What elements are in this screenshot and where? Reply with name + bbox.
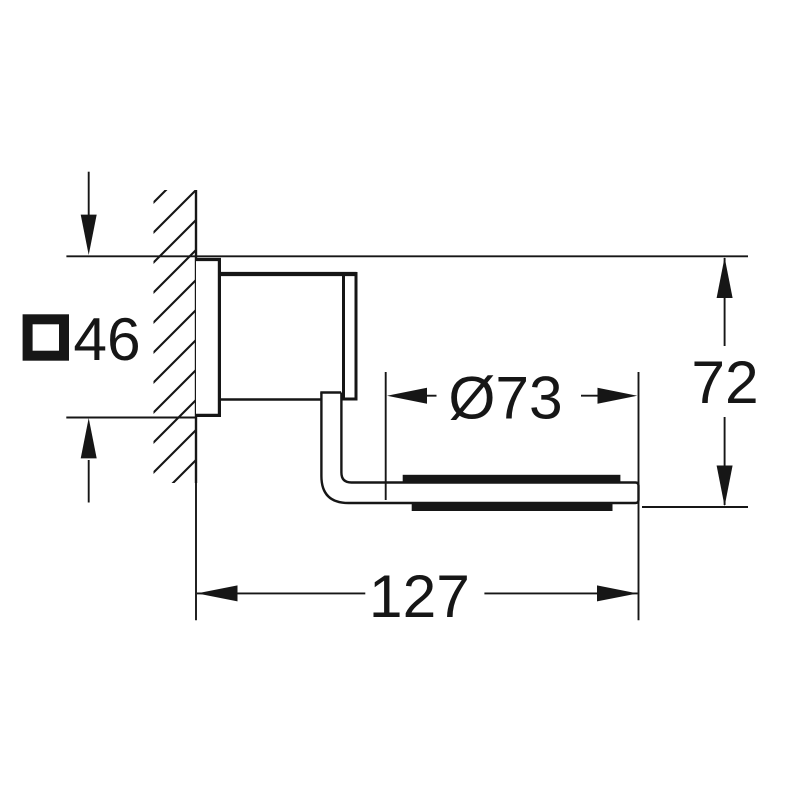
wall plate	[196, 260, 219, 416]
svg-text:Ø73: Ø73	[448, 364, 562, 432]
dimension 72 top arrow	[717, 257, 733, 298]
dish top bar	[403, 475, 621, 484]
holder body top edge	[219, 272, 356, 276]
extension line bottom 46	[66, 417, 196, 419]
svg-text:46: 46	[73, 305, 140, 373]
dimension 72 bottom arrow	[717, 466, 733, 507]
svg-text:127: 127	[369, 562, 470, 630]
extension line top (46/72)	[66, 255, 748, 257]
extension line right diameter 73 / 127	[638, 372, 640, 620]
wall hatching	[152, 159, 197, 534]
dimension 46 up arrow	[81, 418, 97, 503]
holder body right outer edge	[355, 272, 358, 400]
dimension 72 line lower	[724, 417, 726, 505]
wall face line	[195, 190, 197, 483]
dimension diameter 73 left arrow	[387, 388, 437, 404]
dimension 72 line upper	[724, 258, 726, 346]
square symbol 46	[28, 319, 64, 355]
dimension 127 left arrow	[197, 585, 238, 601]
dimension diameter 73 right arrow	[581, 388, 637, 404]
holder body right inner edge	[342, 274, 345, 398]
dimension 127 line left	[197, 592, 365, 594]
dimension 127 line right	[484, 592, 637, 594]
dish bottom bar	[412, 504, 613, 512]
holder body right bottom connector	[342, 398, 358, 401]
dimension 46 down arrow	[81, 172, 97, 255]
svg-text:72: 72	[691, 348, 758, 416]
extension line left 127	[195, 483, 197, 620]
tube cap	[320, 391, 341, 393]
holder body bottom edge	[219, 398, 321, 400]
extension line left diameter 73	[385, 372, 387, 500]
dimension 127 right arrow	[597, 585, 638, 601]
extension line bottom 72	[642, 506, 748, 508]
tube outline	[321, 393, 638, 504]
